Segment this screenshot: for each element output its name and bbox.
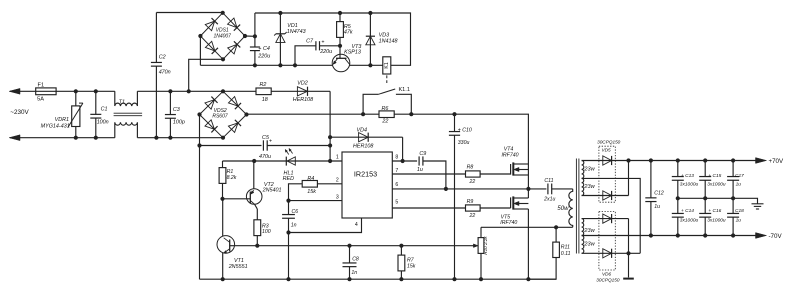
svg-text:VD6: VD6 (602, 272, 612, 277)
diode VDS1 DA (left-top arm) (205, 18, 218, 31)
node junction C10 bottom on ground rail (452, 277, 456, 281)
svg-text:C18: C18 (735, 208, 744, 214)
wire C6 node down to ground rail (288, 233, 290, 280)
svg-text:100p: 100p (173, 120, 185, 126)
node junction VCC-pin1 (328, 159, 332, 163)
svg-text:100n: 100n (97, 120, 109, 126)
node junction R3 bottom (255, 244, 259, 248)
svg-text:IR2153: IR2153 (354, 170, 377, 179)
svg-text:50w: 50w (557, 206, 569, 212)
wire tap w2 bottom through VD5b (582, 195, 629, 197)
svg-text:1n: 1n (351, 270, 357, 276)
svg-text:23w: 23w (583, 184, 595, 190)
transistor VT3 KSP13 (332, 54, 350, 72)
diode VD4 bootstrap (330, 136, 403, 138)
svg-text:220u: 220u (319, 49, 332, 55)
transformer primary winding 50w (569, 189, 573, 227)
node junction VDR1 top (74, 89, 78, 93)
resistor R3 (254, 220, 261, 236)
svg-text:R2: R2 (259, 82, 266, 88)
svg-text:R4: R4 (307, 176, 314, 182)
svg-text:100: 100 (262, 229, 271, 235)
node junction C6 riser on ground rail (286, 277, 290, 281)
node junction C9 at pin 6 line (444, 187, 448, 191)
svg-text:6: 6 (395, 182, 398, 188)
wire VDS1 bottom corner to AC top line (189, 59, 223, 91)
wire VDS2 minus vertical (primary ground riser) (199, 115, 201, 280)
svg-text:1n: 1n (291, 222, 297, 228)
svg-text:+ C13: + C13 (681, 173, 694, 179)
node junction C12 top (649, 158, 653, 162)
node junction C16 bottom (703, 233, 707, 237)
resistor R11 (555, 227, 557, 242)
node junction VT5 source on ground rail (526, 277, 530, 281)
svg-text:HER108: HER108 (293, 97, 313, 103)
wire AC bottom from T1 to VDS2 (137, 137, 223, 139)
node junction VD6 cathodes (626, 251, 630, 255)
svg-text:R1: R1 (227, 169, 234, 175)
wire DC bus from VDS2 to R6 (247, 113, 380, 115)
node junction VD4 at pin 8 (401, 159, 405, 163)
capacitor C3 (169, 91, 171, 114)
node junction C4 bottom (253, 63, 257, 67)
transistor VT4 IRF740 (510, 164, 512, 175)
transformer secondary winding w4 23w (582, 236, 584, 254)
node junction R7 top (399, 244, 403, 248)
svg-text:1u: 1u (654, 204, 660, 210)
wire dashed mechanical link K1 to K1.1 (386, 75, 388, 84)
svg-text:+ C10: + C10 (458, 128, 472, 134)
resistor R9 (466, 205, 481, 211)
diode VD5b (603, 191, 612, 200)
node junction VDS1-AC (187, 89, 191, 93)
svg-text:+ C15: + C15 (708, 173, 721, 179)
node junction R5 top (338, 11, 342, 15)
potentiometer R10 (480, 227, 482, 237)
node junction VD1 top (278, 11, 282, 15)
node junction R10 bottom on ground rail (479, 277, 483, 281)
wire VD6 cathodes to ground (628, 253, 630, 277)
svg-text:R6: R6 (381, 106, 388, 112)
svg-text:22: 22 (381, 118, 388, 124)
wire VDS1 right corner to C4 node (245, 35, 255, 37)
node junction VT1 emitter on ground rail (221, 277, 225, 281)
capacitor C16 (704, 198, 706, 213)
capacitor C5 (200, 145, 262, 147)
wire pin 6 line to half-bridge midpoint (392, 188, 528, 190)
bridge rectifier VDS2 outline (200, 91, 247, 137)
fuse F1 (36, 88, 56, 95)
rectifier VD5 dashed box (599, 146, 615, 202)
node arrow AC top (9, 88, 20, 94)
svg-text:8.2k: 8.2k (227, 175, 237, 181)
wire tap w4 bottom through VD6b (582, 252, 641, 254)
wire pin 7 line to R8 (392, 173, 465, 175)
diode VD6b (603, 249, 612, 258)
wire VD6a cathode riser (628, 219, 630, 254)
capacitor C14 (677, 198, 679, 213)
svg-text:1u: 1u (417, 167, 423, 173)
capacitor C4 (254, 36, 256, 47)
svg-text:2N5551: 2N5551 (228, 264, 248, 270)
inductor T1 (common-mode choke) (115, 91, 138, 106)
capacitor C18 (732, 198, 734, 213)
wire AC line top (~230V upper) (10, 90, 115, 92)
node junction VD3 bottom (368, 63, 372, 67)
diode VDS2 DD (bottom-right arm) (228, 120, 241, 133)
svg-text:T1: T1 (119, 100, 125, 106)
node junction C18 bottom (731, 233, 735, 237)
node junction C3 top (168, 89, 172, 93)
svg-text:IRF740: IRF740 (500, 220, 517, 226)
node junction C3 bottom (168, 136, 172, 140)
svg-text:3x1000u: 3x1000u (680, 218, 699, 224)
resistor R8 (466, 171, 481, 177)
svg-text:5: 5 (395, 199, 398, 205)
svg-text:2: 2 (336, 177, 339, 183)
resistor R1 (222, 161, 224, 168)
wire R8 to VT4 gate (480, 173, 511, 175)
svg-text:2x1u: 2x1u (543, 197, 555, 203)
svg-text:220u: 220u (257, 54, 270, 60)
svg-text:HER108: HER108 (353, 143, 373, 149)
wire VT1 base line to R10 wiper (235, 245, 472, 247)
transistor VT2 2N5401 (246, 189, 262, 205)
wire VD5b cathode riser (628, 161, 630, 196)
node junction C17 top (731, 158, 735, 162)
resistor R6 (379, 111, 394, 118)
resistor R5 (339, 13, 341, 22)
node junction VDS2 top corner (221, 89, 225, 93)
svg-text:C6: C6 (292, 209, 299, 215)
svg-text:C7: C7 (306, 38, 314, 44)
wire +70V rail (tap w1 top through VD5) (582, 160, 760, 162)
svg-text:+ C16: + C16 (708, 208, 721, 214)
node arrow +70V (756, 158, 767, 164)
capacitor C8 (349, 246, 351, 263)
node junction C8 top (347, 244, 351, 248)
capacitor C2 (155, 13, 157, 63)
capacitor C13 (677, 161, 679, 177)
svg-text:MYG14-431: MYG14-431 (41, 123, 70, 129)
svg-text:KSP13: KSP13 (344, 50, 361, 56)
svg-text:15k: 15k (307, 189, 316, 195)
node junction VDS1 left corner (198, 34, 202, 38)
node junction VDS2 left corner (197, 112, 201, 116)
svg-text:-70V: -70V (769, 233, 783, 240)
node junction pin3-R4-C6 (286, 199, 290, 203)
transformer secondary winding w2 23w (582, 178, 584, 195)
ground symbol output (752, 203, 764, 205)
varistor VDR1 (72, 106, 80, 127)
node arrow AC bottom (9, 135, 20, 141)
node junction VDS1 right corner (243, 34, 247, 38)
svg-text:C9: C9 (419, 151, 426, 157)
wire top rail from C2 to VDS1 (156, 12, 222, 14)
wire R9 to VT5 gate (480, 207, 511, 209)
node junction VDS2 bottom corner (221, 136, 225, 140)
capacitor C7 (320, 45, 341, 47)
node junction VD1 bottom (278, 63, 282, 67)
svg-text:C2: C2 (159, 55, 166, 61)
wire riser C4 node to aux top rail (254, 13, 256, 36)
transistor VT1 2N5551 (217, 236, 235, 254)
wire tap w3 top through VD6a (582, 218, 629, 220)
diode VD5a (603, 156, 612, 165)
svg-text:5A: 5A (37, 97, 44, 103)
ground symbol secondary (623, 278, 634, 280)
capacitor C10 (454, 114, 456, 131)
wire aux ground line left segment (200, 64, 332, 66)
svg-text:0.11: 0.11 (561, 251, 571, 257)
node junction mid rail C13-C14 (676, 196, 680, 200)
switch contact K1.1 (363, 94, 378, 114)
rectifier VD6 dashed box (599, 212, 615, 271)
svg-text:K1.1: K1.1 (398, 87, 410, 93)
node junction VCC-VD4 tap (328, 135, 332, 139)
svg-text:C8: C8 (352, 256, 359, 262)
wire tap w1/w2 center to ground column (582, 178, 641, 253)
svg-text:1: 1 (336, 155, 339, 161)
svg-text:23w: 23w (583, 228, 595, 234)
svg-text:330u: 330u (458, 140, 470, 146)
svg-text:18: 18 (262, 97, 268, 103)
svg-text:VDR1: VDR1 (55, 117, 69, 123)
svg-text:RS607: RS607 (212, 113, 228, 119)
diode VDS2 DB (left-bottom arm) (205, 120, 218, 133)
node junction C6 bottom / pin4 line (286, 230, 290, 234)
svg-text:3x1000u: 3x1000u (680, 181, 699, 187)
wire VDS1 left corner down to aux ground line (199, 36, 201, 65)
svg-text:~230V: ~230V (10, 109, 29, 116)
node junction VD5 cathodes on +70V rail (626, 158, 630, 162)
svg-text:VD5: VD5 (601, 147, 611, 152)
zener diode VD1 (279, 13, 281, 65)
node junction R5-C7-VT3 base (338, 44, 342, 48)
wire pin 3 line (289, 200, 343, 202)
wire DC bus from R6 to VT4 drain corner (394, 114, 528, 164)
wire VCC riser from VD2 down to pin 1 line (329, 91, 331, 161)
diode VDS1 DB (left-bottom arm) (205, 41, 218, 54)
capacitor C15 (704, 161, 706, 177)
svg-text:3x1000u: 3x1000u (707, 218, 726, 224)
capacitor C6 (288, 201, 290, 215)
svg-text:23w: 23w (583, 166, 595, 172)
svg-text:15k: 15k (407, 264, 416, 270)
svg-text:1N4743: 1N4743 (287, 29, 306, 35)
node junction C5 left to primary ground (197, 143, 201, 147)
svg-text:R11: R11 (561, 245, 570, 251)
svg-text:+: + (321, 39, 324, 45)
svg-text:R7: R7 (407, 257, 415, 263)
svg-text:470u: 470u (259, 154, 271, 160)
svg-text:VD2: VD2 (297, 81, 308, 87)
node junction C1 bottom (94, 136, 98, 140)
svg-text:3: 3 (336, 194, 339, 200)
svg-text:1u: 1u (736, 181, 742, 187)
transistor VT5 IRF740 (510, 197, 512, 208)
transformer secondary winding w3 23w (582, 219, 584, 236)
node junction VT2 emitter on pin1 line (252, 159, 256, 163)
capacitor C17 (732, 161, 734, 177)
wire pin1 line with LED (223, 160, 343, 162)
svg-text:47k: 47k (344, 29, 353, 35)
svg-text:30CPQ150: 30CPQ150 (596, 277, 620, 282)
wire pin 8 line (392, 160, 417, 162)
node junction bus-K1.1 right (409, 112, 413, 116)
svg-text:VD4: VD4 (357, 128, 368, 134)
wire -70V rail (tap w3/w4 center) (582, 235, 760, 237)
wire pin 5 line to R9 (392, 207, 465, 209)
svg-text:1N4007: 1N4007 (213, 33, 231, 39)
svg-text:K1: K1 (384, 62, 390, 68)
svg-text:RED: RED (283, 176, 294, 182)
node junction C14 bottom (676, 233, 680, 237)
wire pin 2 line with R4 (318, 183, 342, 185)
node junction C13 top (676, 158, 680, 162)
node junction bus-K1.1 left (361, 112, 365, 116)
capacitor C12 (650, 161, 652, 198)
relay coil K1 (383, 57, 391, 74)
node junction mid rail C17-C18 (731, 196, 735, 200)
diode VD6a (603, 214, 612, 223)
capacitor C11 (528, 188, 546, 190)
svg-text:1N4148: 1N4148 (379, 38, 398, 44)
resistor R7 (400, 246, 402, 256)
node junction C15 top (703, 158, 707, 162)
wire output mid rail (678, 198, 758, 204)
svg-text:+ C4: + C4 (258, 46, 270, 52)
node arrow -70V (756, 233, 767, 239)
node junction VDS1 top corner (221, 11, 225, 15)
node junction C1 top (94, 89, 98, 93)
svg-text:22: 22 (469, 213, 476, 219)
node junction bus-C10 (452, 112, 456, 116)
svg-text:+: + (269, 138, 272, 144)
transformer core (575, 159, 577, 254)
svg-text:R10 2.2k: R10 2.2k (483, 236, 488, 255)
svg-text:R8: R8 (467, 165, 474, 171)
node junction VDS2 right corner (244, 112, 248, 116)
svg-text:3x1000u: 3x1000u (707, 181, 726, 187)
capacitor C1 (95, 91, 97, 114)
svg-text:C1: C1 (101, 107, 108, 113)
diode VDS2 DC (top-right arm) (228, 97, 241, 110)
svg-text:R9: R9 (467, 199, 474, 205)
svg-text:+ C14: + C14 (681, 208, 694, 214)
node junction VDS1 bottom corner (221, 57, 225, 61)
node junction R11 top (554, 225, 558, 229)
wire VT4 source to midpoint (527, 175, 529, 189)
wire AC top from T1 to R2 (137, 90, 255, 92)
diode VDS1 DC (top-right arm) (228, 18, 241, 31)
node junction VDR1 bottom (74, 136, 78, 140)
svg-text:C11: C11 (544, 178, 553, 184)
wire VT5 source line / primary return (481, 226, 573, 228)
transformer secondary winding w1 23w (582, 161, 584, 179)
wire aux ground line right segment (VT3 collector to K1) (350, 64, 383, 66)
node junction mid rail C15-C16 (703, 196, 707, 200)
svg-text:C3: C3 (173, 107, 180, 113)
capacitor C9 (418, 156, 420, 165)
node junction C8 bottom (347, 277, 351, 281)
svg-text:8: 8 (395, 155, 398, 161)
svg-text:C12: C12 (654, 190, 664, 196)
svg-text:22: 22 (469, 179, 476, 185)
svg-text:470n: 470n (159, 70, 171, 76)
node junction R7 bottom (399, 277, 403, 281)
wire VT5 source to ground rail (527, 209, 529, 279)
node junction C4 top node (253, 34, 257, 38)
node junction C7 left to aux ground (293, 63, 297, 67)
op-amp U1 IR2153 box (342, 152, 392, 218)
svg-text:4: 4 (355, 222, 358, 228)
diode VD3 (369, 13, 371, 65)
svg-text:1u: 1u (736, 218, 742, 224)
node junction C12 bottom (649, 233, 653, 237)
svg-text:+70V: +70V (769, 158, 784, 165)
node junction VCC-C5 (328, 143, 332, 147)
diode VDS2 DA (left-top arm) (205, 97, 218, 110)
svg-text:IRF740: IRF740 (501, 153, 518, 159)
node junction VD3 top (368, 11, 372, 15)
wire aux top rail (right segment) (255, 13, 411, 65)
led HL1 (285, 157, 287, 166)
svg-text:C17: C17 (735, 173, 744, 179)
svg-text:7: 7 (395, 168, 398, 174)
wire R2 to VD2 to VCC riser (271, 90, 330, 92)
node junction C2 bottom (154, 136, 158, 140)
resistor R2 (256, 88, 271, 95)
wire primary ground rail (200, 278, 557, 280)
node junction half-bridge midpoint (526, 187, 530, 191)
svg-text:F1: F1 (38, 82, 45, 88)
diode VD2 (297, 87, 307, 96)
bridge rectifier VDS1 outline (200, 13, 245, 60)
diode VDS1 DD (bottom-right arm) (228, 41, 241, 54)
svg-text:2N5401: 2N5401 (262, 188, 282, 194)
wire pin 4 line (289, 218, 362, 233)
wire AC line bottom (~230V lower) (10, 137, 115, 139)
svg-text:23w: 23w (583, 241, 595, 247)
svg-text:30CPQ150: 30CPQ150 (597, 139, 621, 144)
node junction R1 bottom / VT2 base / VT1 collector (220, 197, 224, 201)
